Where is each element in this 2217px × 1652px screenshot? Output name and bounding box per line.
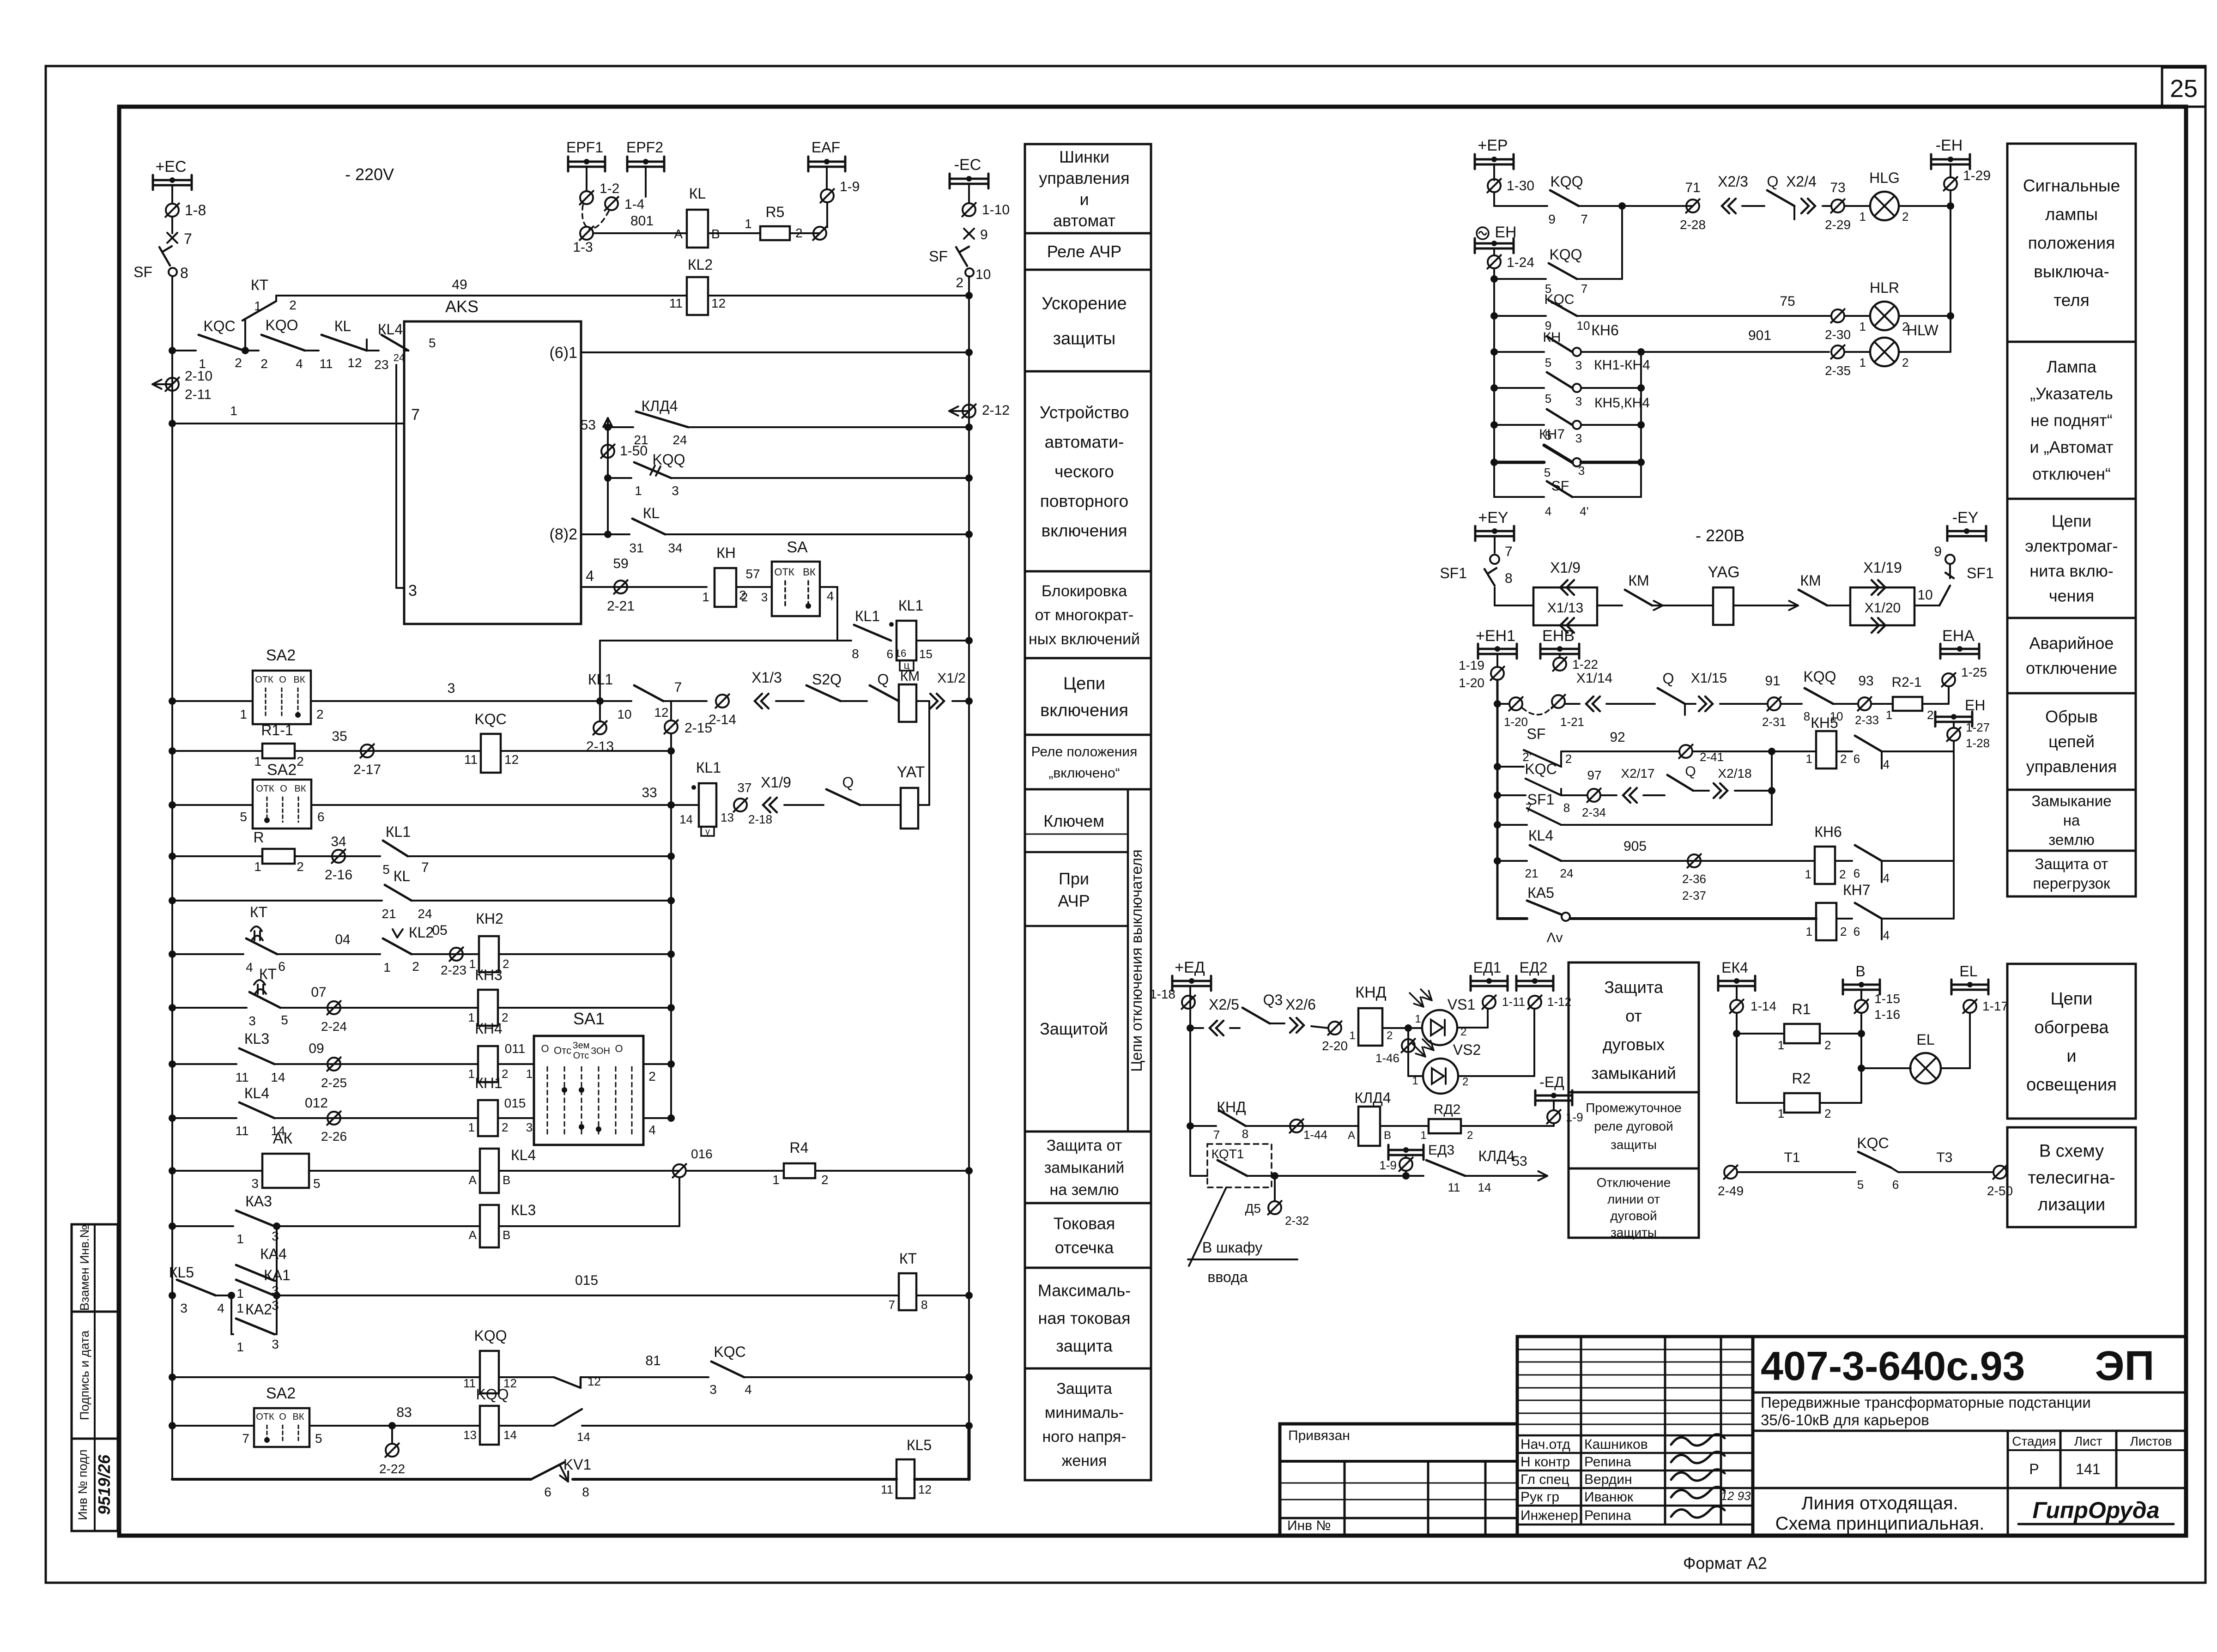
wire (172, 855, 262, 857)
wire (172, 1007, 247, 1009)
svg-text:НLW: НLW (1907, 322, 1939, 339)
contact Q3 (1230, 1027, 1240, 1029)
svg-text:8: 8 (582, 1485, 589, 1499)
svg-text:R1: R1 (1792, 1001, 1811, 1017)
wire (172, 953, 243, 955)
wire 04 (277, 953, 380, 955)
contact KH r (1490, 348, 1498, 356)
svg-text:49: 49 (452, 277, 467, 292)
junction (169, 1374, 176, 1381)
svg-text:(8)2: (8)2 (550, 526, 577, 543)
contact Q r (1767, 190, 1794, 206)
svg-text:и: и (1079, 190, 1089, 209)
resistor R4 (784, 1163, 815, 1178)
test point 2-36 (1688, 854, 1701, 867)
contact KL1 5-7 (383, 841, 408, 856)
test point 1-17 (1963, 1000, 1976, 1013)
busbar EH tilde (1475, 242, 1514, 245)
svg-text:KQQ: KQQ (476, 1386, 509, 1403)
wire (916, 700, 929, 702)
svg-text:2-22: 2-22 (379, 1462, 405, 1476)
svg-text:на: на (2063, 812, 2080, 829)
svg-text:R: R (253, 829, 264, 846)
svg-text:1-22: 1-22 (1572, 657, 1598, 672)
svg-text:1-8: 1-8 (185, 202, 206, 218)
svg-text:КL1: КL1 (696, 759, 721, 776)
svg-text:КL4: КL4 (378, 321, 403, 338)
svg-text:KQC: KQC (714, 1343, 745, 1360)
svg-text:ВК: ВК (295, 784, 306, 794)
wire (663, 700, 707, 702)
svg-text:1-9: 1-9 (1379, 1158, 1397, 1172)
test point 1-22 (1559, 654, 1561, 658)
svg-text:1: 1 (468, 1011, 475, 1024)
wire 1 to AKS pin7 (172, 423, 404, 424)
svg-text:жения: жения (1062, 1452, 1107, 1470)
wire +EC down (171, 185, 173, 203)
svg-text:7: 7 (184, 230, 192, 247)
test point 1-44 (1290, 1119, 1303, 1132)
svg-text:электромаг-: электромаг- (2025, 537, 2118, 556)
svg-text:В: В (1855, 963, 1865, 980)
junction (169, 853, 176, 860)
junction (169, 1292, 176, 1299)
svg-text:лампы: лампы (2045, 205, 2098, 224)
wire (686, 1170, 784, 1172)
svg-text:1: 1 (236, 1340, 244, 1354)
svg-text:А: А (469, 1173, 477, 1187)
svg-text:Вердин: Вердин (1584, 1472, 1632, 1487)
test point 2-35 (1831, 345, 1844, 358)
svg-text:KQQ: KQQ (1550, 173, 1583, 190)
rung 2226 (1187, 1024, 1194, 1032)
coil KH3 (478, 990, 498, 1026)
svg-text:34: 34 (668, 541, 682, 555)
svg-text:1-18: 1-18 (1150, 987, 1175, 1001)
svg-text:реле дуговой: реле дуговой (1594, 1119, 1673, 1133)
svg-text:407-3-640c.93: 407-3-640c.93 (1761, 1343, 2025, 1389)
svg-text:КТ: КТ (259, 966, 277, 982)
middle column boxes upper (1025, 144, 1151, 233)
svg-text:Ускорение: Ускорение (1042, 294, 1127, 313)
wire (1246, 1125, 1358, 1127)
thyristor VS2 (1407, 1028, 1409, 1076)
middle col lower frame (1025, 789, 1151, 1132)
wire (1382, 1027, 1422, 1029)
svg-text:+ЕД: +ЕД (1175, 959, 1205, 976)
svg-text:2: 2 (289, 298, 297, 312)
wire (1899, 351, 1950, 353)
contact KL2 fork (383, 938, 412, 954)
right column boxes (2007, 144, 2136, 342)
svg-text:23: 23 (374, 357, 388, 372)
test point 2-23 (450, 948, 463, 961)
svg-text:2: 2 (260, 357, 268, 371)
svg-text:Защитой: Защитой (1040, 1019, 1108, 1038)
connector X1/9 (769, 798, 777, 812)
svg-text:6: 6 (887, 647, 893, 661)
svg-text:12: 12 (918, 1483, 932, 1496)
right rail thick (968, 1426, 971, 1479)
svg-text:лизации: лизации (2038, 1195, 2105, 1214)
svg-text:ГипрОруда: ГипрОруда (2032, 1497, 2159, 1523)
svg-text:7: 7 (242, 1431, 249, 1446)
svg-text:ввода: ввода (1207, 1269, 1248, 1285)
svg-text:KQC: KQC (203, 318, 235, 334)
svg-text:83: 83 (396, 1405, 412, 1420)
vert to 2-13 (599, 701, 601, 721)
svg-text:1-9: 1-9 (840, 179, 860, 194)
svg-text:2-37: 2-37 (1682, 889, 1706, 902)
svg-text:замыканий: замыканий (1591, 1064, 1676, 1083)
svg-text:положения: положения (2028, 233, 2115, 252)
test point 2-17 (361, 744, 374, 757)
svg-text:04: 04 (335, 932, 350, 947)
svg-text:1-46: 1-46 (1375, 1051, 1399, 1065)
svg-text:Q3: Q3 (1263, 992, 1283, 1008)
svg-text:9: 9 (1934, 544, 1942, 559)
coil KH4 (478, 1046, 498, 1082)
vert 599 (276, 1226, 278, 1295)
svg-text:SA2: SA2 (266, 647, 296, 664)
svg-text:14: 14 (503, 1428, 517, 1442)
svg-text:3: 3 (180, 1301, 188, 1315)
svg-text:цепей: цепей (2048, 732, 2095, 751)
svg-text:2-29: 2-29 (1825, 218, 1851, 232)
wire (1823, 205, 1831, 207)
busbar EPF1 (568, 161, 605, 163)
svg-text:-EC: -EC (954, 156, 981, 174)
svg-text:1: 1 (236, 1286, 244, 1301)
svg-text:1: 1 (383, 960, 391, 974)
test point 1-11 (1483, 996, 1496, 1009)
test point 1-3 (580, 227, 593, 240)
test point 2-33 (1858, 697, 1871, 710)
svg-text:RД2: RД2 (1434, 1102, 1461, 1117)
svg-text:6: 6 (278, 959, 285, 974)
svg-text:3: 3 (248, 1014, 256, 1028)
svg-text:12 93: 12 93 (1720, 1489, 1751, 1503)
svg-text:VS2: VS2 (1453, 1041, 1481, 1058)
svg-text:КL3: КL3 (244, 1030, 269, 1047)
svg-text:1: 1 (772, 1173, 780, 1187)
contact KL 21-24 (385, 885, 412, 901)
wire 33 (311, 804, 699, 806)
test point 1-29 (1950, 164, 1951, 177)
svg-text:1-44: 1-44 (1303, 1128, 1327, 1142)
wire (367, 350, 379, 351)
note v shkafu (1189, 1187, 1226, 1266)
svg-text:KQO: KQO (265, 317, 298, 333)
svg-text:ЕД2: ЕД2 (1520, 959, 1548, 976)
svg-text:КМ: КМ (900, 669, 920, 684)
EH right rail (1953, 741, 1955, 919)
connector X1/2 (930, 694, 938, 708)
svg-text:S2Q: S2Q (812, 671, 842, 688)
svg-text:чения: чения (2049, 587, 2094, 605)
svg-text:1-11: 1-11 (1502, 995, 1525, 1009)
svg-text:10: 10 (1917, 587, 1932, 603)
coil KQQ (480, 1351, 499, 1393)
switch SA2 no3 (254, 1408, 309, 1447)
wire (172, 1063, 236, 1065)
svg-text:1-24: 1-24 (1507, 255, 1534, 270)
wire (499, 1170, 679, 1172)
x mark 7 (167, 233, 177, 243)
svg-text:линии от: линии от (1607, 1192, 1660, 1206)
svg-text:Λv: Λv (1546, 930, 1563, 945)
svg-text:R4: R4 (790, 1139, 809, 1156)
vert 2-15 (670, 701, 672, 720)
svg-text:ВК: ВК (293, 1412, 304, 1422)
svg-text:+EY: +EY (1478, 509, 1508, 526)
svg-text:1: 1 (1860, 320, 1866, 333)
coil YAT (901, 788, 918, 829)
svg-text:1: 1 (1415, 1013, 1421, 1025)
svg-text:КТ: КТ (251, 277, 268, 293)
svg-text:КТ: КТ (899, 1250, 917, 1267)
svg-text:SF1: SF1 (1440, 565, 1467, 581)
svg-text:1: 1 (1860, 356, 1866, 369)
wire 09 (274, 1063, 478, 1065)
svg-text:1-20: 1-20 (1459, 676, 1484, 690)
junction (169, 697, 176, 705)
wire 901 (1581, 351, 1641, 353)
svg-text:3: 3 (448, 681, 455, 696)
wire (916, 1295, 969, 1296)
wire (274, 1225, 480, 1227)
svg-text:КL: КL (643, 505, 660, 521)
svg-text:КН: КН (1543, 330, 1561, 345)
svg-text:О: О (279, 1412, 286, 1422)
svg-text:КL5: КL5 (907, 1437, 932, 1453)
wire (172, 350, 196, 351)
svg-text:10: 10 (975, 267, 991, 282)
logo box divider (2007, 1488, 2009, 1536)
test point 1-9 (821, 189, 834, 202)
svg-text:Т1: Т1 (1784, 1150, 1800, 1165)
svg-text:Иванюк: Иванюк (1584, 1489, 1634, 1505)
svg-text:10: 10 (617, 707, 631, 721)
wire KQQ rung (608, 477, 631, 479)
busbar EK4 (1718, 980, 1755, 982)
svg-text:Т3: Т3 (1936, 1150, 1952, 1165)
svg-text:ЕН: ЕН (1495, 224, 1516, 241)
right rail (968, 276, 970, 1426)
SA1 internals (547, 1067, 548, 1134)
svg-text:2-20: 2-20 (1322, 1039, 1348, 1053)
svg-text:ческого: ческого (1054, 462, 1114, 481)
svg-text:НLR: НLR (1870, 279, 1899, 296)
vert 2-22 (391, 1426, 393, 1444)
svg-text:защиты: защиты (1053, 329, 1116, 348)
vert kh (1640, 352, 1642, 497)
svg-text:2-24: 2-24 (321, 1019, 347, 1034)
title divider (1753, 1392, 2186, 1394)
svg-text:1: 1 (1886, 708, 1892, 722)
svg-text:1: 1 (254, 299, 261, 313)
svg-text:1-16: 1-16 (1874, 1007, 1900, 1022)
svg-text:телесигна-: телесигна- (2028, 1168, 2115, 1187)
svg-text:AKS: AKS (445, 297, 479, 316)
svg-text:Защита от: Защита от (2035, 855, 2108, 872)
svg-text:1: 1 (1806, 925, 1812, 938)
connector box X1/13 (1533, 587, 1597, 625)
svg-text:92: 92 (1610, 730, 1625, 745)
svg-text:АК: АК (273, 1130, 293, 1147)
svg-text:1-30: 1-30 (1507, 178, 1534, 194)
contact KAS (1497, 917, 1527, 920)
svg-text:Отс: Отс (573, 1051, 589, 1061)
svg-text:НLG: НLG (1869, 169, 1900, 186)
svg-text:Обрыв: Обрыв (2045, 707, 2098, 726)
busbar +EC (153, 179, 192, 182)
svg-text:управления: управления (1039, 169, 1129, 188)
vert KT to rung (244, 321, 246, 351)
wire (1311, 1026, 1328, 1028)
svg-text:-EY: -EY (1952, 509, 1979, 526)
svg-text:ЕД1: ЕД1 (1473, 959, 1502, 976)
svg-text:8: 8 (921, 1298, 927, 1312)
svg-text:2: 2 (1902, 210, 1908, 224)
busbar EL (1951, 984, 1988, 986)
svg-text:4: 4 (296, 357, 303, 371)
svg-text:КН5: КН5 (1811, 714, 1838, 731)
svg-text:- 220V: - 220V (345, 165, 394, 184)
svg-text:автомати-: автомати- (1045, 432, 1124, 451)
svg-text:КН4: КН4 (475, 1020, 503, 1037)
contact Q eh2 (1643, 794, 1665, 796)
svg-text:X1/9: X1/9 (761, 774, 791, 791)
test point 2-24 (327, 1001, 340, 1014)
svg-text:отключение: отключение (2026, 659, 2117, 678)
svg-text:35: 35 (332, 729, 347, 744)
wire (916, 640, 969, 641)
svg-text:не поднят“: не поднят“ (2030, 411, 2113, 430)
svg-text:8: 8 (1563, 801, 1570, 815)
wire 75 (1577, 315, 1831, 317)
svg-text:Цепи: Цепи (2052, 512, 2091, 531)
coil KL2 (687, 277, 708, 315)
svg-text:YAG: YAG (1708, 563, 1739, 581)
svg-text:7: 7 (421, 860, 429, 875)
switch SA (772, 562, 820, 616)
svg-text:2: 2 (316, 707, 324, 721)
svg-text:Схема принципиальная.: Схема принципиальная. (1775, 1513, 1985, 1534)
svg-text:2-50: 2-50 (1987, 1184, 2013, 1198)
svg-text:1: 1 (254, 754, 261, 769)
svg-text:12: 12 (588, 1374, 601, 1388)
svg-text:дуговой: дуговой (1610, 1209, 1657, 1223)
svg-text:X1/13: X1/13 (1547, 600, 1583, 616)
svg-text:ЕL: ЕL (1916, 1031, 1934, 1048)
svg-text:Защита: Защита (1056, 1380, 1112, 1398)
svg-text:13: 13 (721, 811, 734, 824)
svg-text:7: 7 (889, 1298, 895, 1312)
svg-text:3: 3 (408, 582, 417, 599)
svg-text:1: 1 (468, 1120, 475, 1134)
svg-text:3: 3 (1575, 431, 1582, 445)
svg-text:9: 9 (980, 227, 988, 242)
svg-text:О: О (541, 1043, 549, 1054)
svg-text:2: 2 (1467, 1129, 1473, 1142)
svg-text:016: 016 (691, 1147, 713, 1161)
svg-text:2: 2 (1902, 356, 1908, 369)
svg-text:Репина: Репина (1584, 1508, 1631, 1523)
svg-text:2-17: 2-17 (353, 762, 381, 777)
wire (1833, 703, 1858, 705)
svg-text:2: 2 (1840, 925, 1847, 938)
svg-text:Репина: Репина (1584, 1454, 1631, 1470)
svg-text:Сигнальные: Сигнальные (2023, 176, 2120, 195)
contact KQC eh (1494, 792, 1501, 799)
coil KH5 (1816, 731, 1836, 769)
svg-text:КL4: КL4 (1528, 827, 1553, 844)
svg-text:5: 5 (1545, 392, 1551, 405)
title block grid (1517, 1337, 2186, 1536)
test point 1-24 (1493, 248, 1495, 255)
svg-text:6: 6 (1892, 1178, 1899, 1192)
svg-text:1-3: 1-3 (573, 240, 593, 255)
wire (1494, 587, 1496, 605)
svg-text:24: 24 (672, 433, 687, 447)
svg-text:R5: R5 (766, 204, 785, 220)
svg-text:3: 3 (272, 1298, 279, 1313)
wire (1736, 1013, 1738, 1103)
lamp EL (1861, 1067, 1911, 1069)
wire KLD4 rung (608, 426, 633, 428)
svg-text:КЛД4: КЛД4 (1478, 1148, 1514, 1164)
svg-text:R2: R2 (1792, 1070, 1811, 1087)
left rail (171, 276, 173, 1479)
busbar B (1843, 984, 1880, 986)
svg-text:2-32: 2-32 (1285, 1214, 1309, 1228)
svg-text:(6)1: (6)1 (550, 344, 577, 362)
arrow test 2-10 (152, 383, 172, 385)
wire (784, 804, 824, 806)
wire T1 (1737, 1171, 1855, 1173)
test point 2-30 (1831, 309, 1844, 322)
svg-text:2-23: 2-23 (441, 963, 466, 977)
svg-text:ВК: ВК (294, 675, 305, 685)
svg-text:15: 15 (919, 647, 933, 661)
lamp HLW (1844, 351, 1870, 353)
svg-text:1-19: 1-19 (1459, 658, 1484, 672)
busbar ED1 (1471, 980, 1508, 982)
svg-text:4: 4 (648, 1123, 656, 1137)
contact Q eh (1658, 688, 1685, 704)
wire (815, 1170, 969, 1172)
wire (1606, 703, 1655, 705)
svg-text:4: 4 (1883, 757, 1890, 771)
svg-text:Q: Q (1767, 173, 1779, 190)
wire (1860, 1013, 1862, 1068)
svg-text:А: А (1348, 1129, 1355, 1142)
wire KL1 rung (600, 640, 851, 641)
svg-text:5: 5 (1545, 356, 1551, 369)
svg-text:Отс: Отс (554, 1045, 571, 1056)
svg-text:перегрузок: перегрузок (2033, 875, 2111, 892)
junction (169, 347, 176, 354)
svg-text:КL: КL (689, 185, 706, 202)
wire (1882, 750, 1954, 752)
coil YAG (1713, 587, 1733, 625)
test point 1-27 (1953, 722, 1955, 728)
test point 1-18 (1182, 996, 1195, 1009)
svg-text:Лист: Лист (2074, 1434, 2102, 1448)
svg-text:09: 09 (309, 1041, 324, 1056)
dashed box KQT1 (1207, 1144, 1272, 1187)
